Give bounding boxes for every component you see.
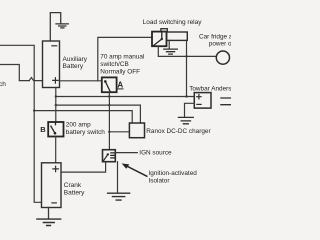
wire: towbar - to ground (185, 103, 195, 116)
svg-text:Ignition-activated: Ignition-activated (149, 170, 198, 177)
crank battery positive terminal mark (53, 166, 58, 171)
ground: aux battery (56, 24, 68, 28)
ground: towbar (178, 117, 193, 123)
svg-text:switch/CB: switch/CB (100, 61, 128, 68)
auxiliary battery (43, 41, 60, 88)
aux battery positive terminal mark (53, 78, 58, 83)
towbar - terminal mark (197, 103, 201, 105)
svg-text:70 amp manual: 70 amp manual (100, 54, 144, 61)
relay terminal tab (161, 29, 167, 32)
ignition-activated isolator box (103, 150, 116, 162)
crank battery (42, 163, 62, 208)
svg-text:A: A (117, 81, 123, 90)
svg-text:wtch: wtch (0, 81, 6, 88)
svg-text:Auxiliary: Auxiliary (63, 56, 88, 63)
wire: isolator to chassis ground (117, 162, 119, 193)
car fridge / power outlet circle (216, 51, 229, 64)
aux battery negative terminal mark (52, 45, 57, 47)
manual switch A box (102, 77, 117, 92)
isolator contact dot (107, 153, 109, 155)
svg-text:B: B (40, 125, 46, 134)
callout arrow to isolator (126, 166, 147, 177)
ground: relay (164, 49, 178, 54)
svg-text:Towbar Anderson: Towbar Anderson (189, 86, 231, 93)
relay coil box (167, 32, 188, 40)
svg-text:Crank: Crank (64, 182, 82, 189)
svg-text:Isolator: Isolator (149, 177, 171, 184)
svg-text:Normally OFF: Normally OFF (100, 69, 140, 76)
svg-text:battery switch: battery switch (66, 129, 106, 136)
ground: isolator (108, 193, 130, 200)
wire: aux battery top to ground point (50, 13, 60, 41)
svg-text:200 amp: 200 amp (66, 122, 91, 129)
ground: crank battery (37, 219, 61, 225)
svg-text:IGN source: IGN source (139, 149, 172, 156)
wire: relay switch output (158, 46, 216, 56)
wire: main 12V bus to towbar plug (56, 96, 195, 98)
towbar anderson plug box (194, 93, 211, 109)
wire: bus L2 to DC-DC charger right input (56, 105, 141, 123)
wire: DC-DC charger left feed (109, 131, 129, 133)
wire: bus L3 to DC-DC charger left input (34, 111, 132, 123)
relay contact dot (161, 38, 163, 40)
wire: aux battery bottom to battery switch B (55, 88, 57, 123)
relay contact stub (161, 32, 163, 39)
isolator blade (103, 155, 107, 161)
switch A contact dot (104, 80, 107, 83)
wire: switch A bottom pin (108, 92, 110, 96)
crank battery negative terminal mark (52, 202, 56, 204)
switch B contact dot (54, 132, 57, 135)
svg-text:Battery: Battery (63, 63, 84, 70)
wire: relay output down to towbar plug (186, 40, 188, 96)
wire crossover hop (29, 78, 42, 81)
junction dots on main bus (55, 95, 57, 97)
wire: switch B to crank battery (55, 137, 57, 163)
wire: relay coil to ground (168, 40, 170, 48)
switch A blade (106, 82, 110, 91)
battery switch B box (48, 122, 63, 137)
wire: bus node down to isolator (108, 97, 110, 150)
wire: crank battery + to isolator (61, 162, 106, 172)
wire: left feed to auxiliary battery positive (0, 65, 29, 81)
wire: left feed to crank battery negative (0, 45, 42, 202)
isolator coil bars (111, 153, 115, 158)
switch B blade (51, 126, 55, 133)
svg-text:power ou: power ou (209, 41, 231, 48)
svg-text:Load switching relay: Load switching relay (143, 19, 203, 26)
wire: aux battery + to manual switch A (60, 80, 102, 82)
wire: isolator IGN input (115, 152, 137, 154)
svg-text:Battery: Battery (64, 189, 85, 196)
towbar mating contacts (221, 98, 231, 105)
Ranox DC-DC charger box (129, 123, 144, 138)
svg-text:Ranox DC-DC charger: Ranox DC-DC charger (146, 128, 211, 135)
wire: switch A node up and over to relay (98, 37, 152, 80)
towbar + terminal mark (197, 95, 201, 99)
svg-text:Car fridge an: Car fridge an (199, 33, 231, 40)
load switching relay: contact box (152, 32, 167, 47)
switch B top stub (55, 122, 57, 125)
relay blade (154, 39, 161, 45)
wire: crank battery to ground (48, 208, 50, 219)
